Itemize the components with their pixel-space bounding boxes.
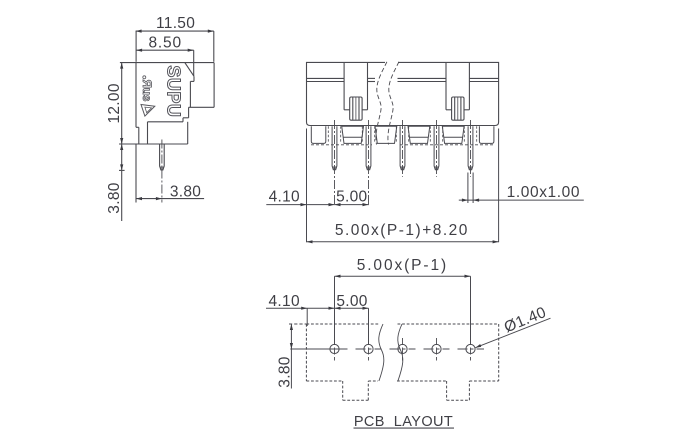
- svg-text:SUPU: SUPU: [164, 65, 184, 117]
- svg-text:5.00: 5.00: [336, 293, 367, 310]
- svg-text:Яus: Яus: [140, 80, 152, 102]
- svg-text:3.80: 3.80: [277, 356, 294, 387]
- svg-text:4.10: 4.10: [269, 188, 300, 205]
- svg-text:8.50: 8.50: [149, 35, 182, 52]
- svg-text:5.00x(P-1)+8.20: 5.00x(P-1)+8.20: [335, 222, 469, 239]
- svg-text:12.00: 12.00: [106, 83, 123, 123]
- svg-text:5.00x(P-1): 5.00x(P-1): [357, 257, 448, 274]
- svg-text:Ø1.40: Ø1.40: [502, 304, 549, 336]
- svg-text:1.00x1.00: 1.00x1.00: [507, 184, 581, 201]
- svg-text:5.00: 5.00: [336, 188, 367, 205]
- svg-text:PCB LAYOUT: PCB LAYOUT: [354, 414, 453, 430]
- svg-text:3.80: 3.80: [170, 183, 201, 200]
- svg-text:11.50: 11.50: [156, 15, 195, 32]
- svg-text:3.80: 3.80: [106, 182, 123, 213]
- svg-text:4.10: 4.10: [269, 293, 300, 310]
